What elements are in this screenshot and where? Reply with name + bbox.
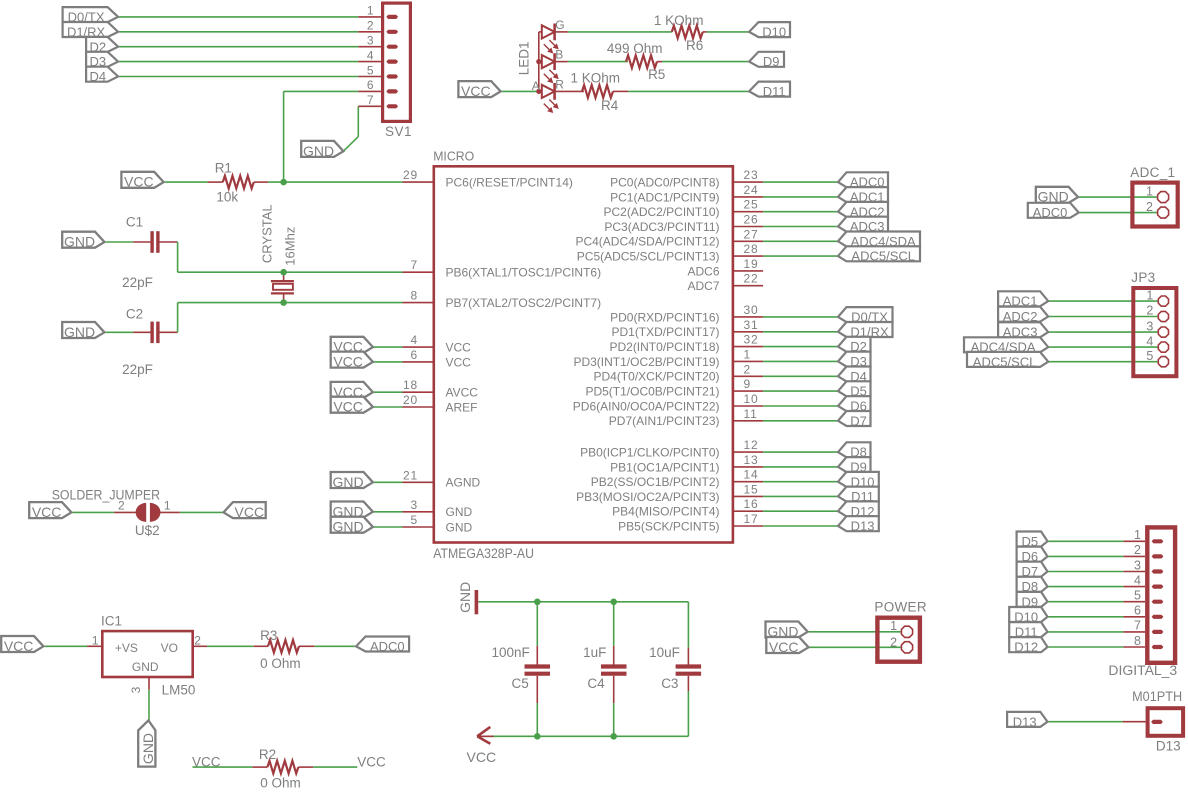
svg-text:8: 8 [411,289,418,303]
svg-text:2: 2 [1146,200,1153,214]
svg-text:VCC: VCC [446,341,472,355]
svg-text:3: 3 [1146,319,1153,333]
svg-text:ADC_1: ADC_1 [1130,165,1175,180]
svg-text:31: 31 [744,318,759,332]
svg-text:D13: D13 [1156,739,1181,754]
svg-text:18: 18 [403,378,418,392]
svg-text:22pF: 22pF [122,362,153,377]
svg-text:PB3(MOSI/OC2A/PCINT3): PB3(MOSI/OC2A/PCINT3) [576,490,719,504]
svg-text:JP3: JP3 [1131,270,1155,285]
svg-text:ADC5/SCL: ADC5/SCL [851,249,915,264]
svg-text:VCC: VCC [769,639,799,655]
svg-text:GND: GND [333,519,364,535]
svg-text:16Mhz: 16Mhz [282,227,297,266]
svg-text:M01PTH: M01PTH [1132,689,1182,704]
svg-text:PC6(/RESET/PCINT14): PC6(/RESET/PCINT14) [446,176,573,190]
svg-text:22pF: 22pF [122,275,153,290]
svg-text:ADC0: ADC0 [1033,205,1068,220]
svg-text:GND: GND [132,660,159,674]
svg-text:PB0(ICP1/CLKO/PCINT0): PB0(ICP1/CLKO/PCINT0) [580,446,719,460]
svg-text:3: 3 [129,686,143,693]
svg-text:32: 32 [744,333,759,347]
svg-text:28: 28 [744,242,759,256]
svg-text:R: R [555,77,564,91]
svg-text:AVCC: AVCC [446,386,479,400]
svg-text:25: 25 [744,198,759,212]
svg-text:R1: R1 [215,161,232,176]
svg-text:10k: 10k [216,190,238,205]
svg-text:C4: C4 [587,676,605,691]
svg-text:2: 2 [194,634,201,648]
svg-text:9: 9 [744,377,751,391]
svg-text:26: 26 [744,213,759,227]
svg-text:PD3(INT1/OC2B/PCINT19): PD3(INT1/OC2B/PCINT19) [573,355,719,369]
svg-text:GND: GND [446,505,473,519]
svg-text:PB7(XTAL2/TOSC2/PCINT7): PB7(XTAL2/TOSC2/PCINT7) [446,296,602,310]
svg-text:VCC: VCC [235,504,265,520]
svg-text:R2: R2 [259,747,276,762]
svg-text:VCC: VCC [4,638,34,654]
svg-text:1: 1 [744,347,751,361]
svg-text:3: 3 [367,34,374,48]
svg-text:1: 1 [1146,288,1153,302]
svg-text:1: 1 [1134,528,1141,542]
svg-text:4: 4 [1134,573,1141,587]
svg-text:ADC6: ADC6 [687,264,719,278]
svg-text:4: 4 [1146,334,1153,348]
svg-text:3: 3 [411,498,418,512]
svg-text:SV1: SV1 [385,124,412,139]
svg-text:2: 2 [1146,304,1153,318]
svg-text:D9: D9 [763,54,780,69]
svg-text:GND: GND [303,143,334,159]
svg-text:VCC: VCC [467,749,497,765]
svg-text:PB1(OC1A/PCINT1): PB1(OC1A/PCINT1) [610,460,719,474]
svg-text:CRYSTAL: CRYSTAL [260,204,275,263]
svg-text:8: 8 [1134,634,1141,648]
svg-text:PD1(TXD/PCINT17): PD1(TXD/PCINT17) [611,325,719,339]
svg-text:POWER: POWER [874,600,927,615]
svg-text:1uF: 1uF [583,645,606,660]
svg-text:GND: GND [64,324,95,340]
svg-text:R3: R3 [260,628,277,643]
svg-text:C1: C1 [126,215,143,230]
svg-text:17: 17 [744,512,759,526]
svg-text:LM50: LM50 [162,683,196,698]
svg-text:GND: GND [333,474,364,490]
svg-text:1 KOhm: 1 KOhm [654,13,704,28]
svg-text:6: 6 [411,348,418,362]
svg-text:VCC: VCC [446,355,472,369]
svg-text:PD4(T0/XCK/PCINT20): PD4(T0/XCK/PCINT20) [593,370,719,384]
svg-text:AGND: AGND [446,476,481,490]
svg-text:MICRO: MICRO [433,149,474,164]
svg-text:1: 1 [1146,184,1153,198]
svg-text:1: 1 [367,4,374,18]
svg-text:C3: C3 [661,676,678,691]
svg-text:VCC: VCC [357,754,386,769]
svg-text:2: 2 [367,19,374,33]
svg-text:19: 19 [744,257,759,271]
svg-text:PB5(SCK/PCINT5): PB5(SCK/PCINT5) [618,519,719,533]
svg-text:10: 10 [744,392,759,406]
svg-text:PB6(XTAL1/TOSC1/PCINT6): PB6(XTAL1/TOSC1/PCINT6) [446,266,602,280]
svg-text:5: 5 [367,63,374,77]
svg-text:PD7(AIN1/PCINT23): PD7(AIN1/PCINT23) [609,414,720,428]
svg-text:PB2(SS/OC1B/PCINT2): PB2(SS/OC1B/PCINT2) [591,475,720,489]
svg-text:+VS: +VS [115,641,138,655]
svg-text:21: 21 [403,468,418,482]
svg-text:2: 2 [1134,543,1141,557]
svg-text:4: 4 [367,48,374,62]
svg-text:DIGITAL_3: DIGITAL_3 [1108,663,1177,678]
svg-text:7: 7 [1134,619,1141,633]
svg-text:6: 6 [367,78,374,92]
svg-text:20: 20 [403,393,418,407]
svg-text:0 Ohm: 0 Ohm [260,656,301,671]
svg-text:ADC5/SCL: ADC5/SCL [973,354,1037,369]
svg-text:U$2: U$2 [135,523,160,538]
svg-text:PD5(T1/OC0B/PCINT21): PD5(T1/OC0B/PCINT21) [585,385,719,399]
svg-text:D12: D12 [1014,640,1038,655]
svg-text:VCC: VCC [461,83,491,99]
svg-text:PC0(ADC0/PCINT8): PC0(ADC0/PCINT8) [610,176,719,190]
svg-text:ATMEGA328P-AU: ATMEGA328P-AU [433,546,534,561]
svg-text:3: 3 [1134,558,1141,572]
svg-text:0 Ohm: 0 Ohm [260,775,301,790]
svg-text:PC5(ADC5/SCL/PCINT13): PC5(ADC5/SCL/PCINT13) [577,250,720,264]
svg-text:VCC: VCC [333,354,363,370]
svg-text:IC1: IC1 [101,613,122,628]
svg-text:D4: D4 [89,69,106,84]
svg-text:15: 15 [744,482,759,496]
svg-text:B: B [555,48,563,62]
svg-text:VCC: VCC [333,399,363,415]
svg-text:2: 2 [744,362,751,376]
svg-text:GND: GND [140,733,156,764]
svg-text:1 KOhm: 1 KOhm [571,71,621,86]
svg-text:R6: R6 [686,38,703,53]
svg-text:10uF: 10uF [649,645,680,660]
svg-text:GND: GND [457,582,473,613]
svg-text:GND: GND [446,520,473,534]
svg-text:VCC: VCC [32,504,62,520]
svg-text:PB4(MISO/PCINT4): PB4(MISO/PCINT4) [612,505,719,519]
svg-text:C2: C2 [126,307,143,322]
svg-text:24: 24 [744,183,759,197]
svg-text:AREF: AREF [446,400,478,414]
svg-text:PD2(INT0/PCINT18): PD2(INT0/PCINT18) [609,340,719,354]
svg-text:ADC0: ADC0 [370,639,405,654]
svg-text:D7: D7 [850,413,867,428]
svg-text:13: 13 [744,453,759,467]
svg-text:D13: D13 [1013,714,1037,729]
svg-text:LED1: LED1 [516,42,531,76]
svg-text:23: 23 [744,168,759,182]
svg-text:5: 5 [1134,589,1141,603]
svg-text:G: G [555,18,564,32]
svg-text:14: 14 [744,468,759,482]
svg-text:2: 2 [890,635,897,649]
svg-text:30: 30 [744,303,759,317]
svg-text:D11: D11 [763,84,786,99]
svg-text:1: 1 [890,619,897,633]
svg-text:SOLDER_JUMPER: SOLDER_JUMPER [52,488,161,503]
svg-text:1: 1 [92,634,99,648]
svg-text:29: 29 [403,168,418,182]
svg-text:VCC: VCC [124,174,154,190]
svg-text:6: 6 [1134,604,1141,618]
svg-text:2: 2 [118,499,125,513]
svg-text:D13: D13 [851,519,875,534]
svg-text:PD6(AIN0/OC0A/PCINT22): PD6(AIN0/OC0A/PCINT22) [573,399,720,413]
svg-text:D10: D10 [762,25,786,40]
svg-text:1: 1 [164,499,171,513]
svg-text:11: 11 [744,407,758,421]
svg-text:PD0(RXD/PCINT16): PD0(RXD/PCINT16) [610,310,719,324]
svg-text:22: 22 [744,272,759,286]
svg-text:7: 7 [411,258,418,272]
svg-text:PC1(ADC1/PCINT9): PC1(ADC1/PCINT9) [610,190,719,204]
svg-text:16: 16 [744,497,759,511]
svg-text:A: A [532,79,540,93]
svg-text:C5: C5 [512,676,529,691]
svg-text:7: 7 [367,93,374,107]
svg-text:VCC: VCC [192,754,221,769]
svg-text:PC4(ADC4/SDA/PCINT12): PC4(ADC4/SDA/PCINT12) [575,235,719,249]
svg-text:5: 5 [411,513,418,527]
svg-text:R4: R4 [601,98,619,113]
svg-text:R5: R5 [648,67,665,82]
svg-text:VO: VO [161,641,178,655]
svg-text:PC2(ADC2/PCINT10): PC2(ADC2/PCINT10) [603,205,719,219]
svg-text:ADC7: ADC7 [687,279,719,293]
svg-text:GND: GND [64,234,95,250]
svg-text:PC3(ADC3/PCINT11): PC3(ADC3/PCINT11) [604,220,719,234]
svg-text:5: 5 [1146,349,1153,363]
svg-text:12: 12 [744,438,759,452]
svg-text:27: 27 [744,227,759,241]
svg-text:4: 4 [411,333,418,347]
svg-text:100nF: 100nF [492,645,530,660]
svg-text:499 Ohm: 499 Ohm [607,41,663,56]
